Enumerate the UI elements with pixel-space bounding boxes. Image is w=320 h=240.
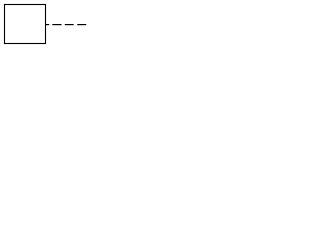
wire (dashed line segment 3) xyxy=(65,24,74,26)
wire (dashed line segment 4) xyxy=(77,24,86,26)
wire (dashed line segment 2) xyxy=(52,24,61,26)
background xyxy=(0,0,90,49)
box (rectangle node) xyxy=(5,5,46,44)
wire (dashed line segment 1) xyxy=(46,24,50,26)
